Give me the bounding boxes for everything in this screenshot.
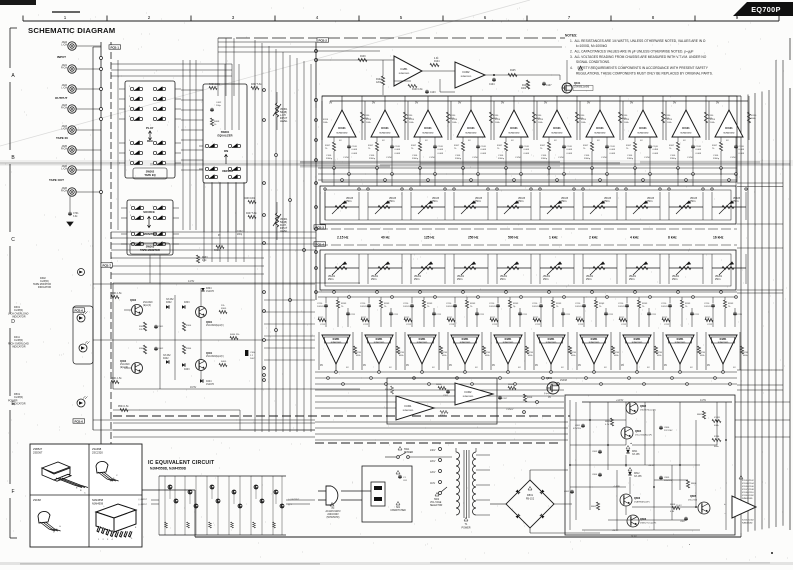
svg-text:R243: R243 bbox=[470, 303, 476, 305]
svg-text:40 Hz: 40 Hz bbox=[381, 236, 390, 240]
svg-text:IC101: IC101 bbox=[510, 126, 518, 130]
svg-text:250 k: 250 k bbox=[371, 279, 377, 281]
svg-text:R115: R115 bbox=[538, 119, 544, 121]
svg-text:6: 6 bbox=[129, 150, 130, 152]
svg-text:C106: C106 bbox=[713, 155, 719, 157]
svg-text:C1/50: C1/50 bbox=[472, 157, 479, 159]
svg-text:C106: C106 bbox=[369, 155, 375, 157]
svg-text:R236: R236 bbox=[356, 352, 362, 354]
svg-text:R217: R217 bbox=[490, 317, 496, 319]
svg-text:C211: C211 bbox=[350, 314, 356, 316]
svg-text:2SD867(C)or(F): 2SD867(C)or(F) bbox=[640, 409, 656, 412]
svg-text:R354: R354 bbox=[186, 348, 192, 350]
svg-text:VR105: VR105 bbox=[346, 198, 354, 200]
svg-text:2SK68(L)or(M): 2SK68(L)or(M) bbox=[574, 86, 589, 89]
svg-text:C211: C211 bbox=[694, 314, 700, 316]
svg-text:2SC2320: 2SC2320 bbox=[92, 451, 103, 455]
svg-text:D403: D403 bbox=[184, 369, 190, 371]
svg-text:3300p: 3300p bbox=[455, 158, 462, 160]
svg-text:C107: C107 bbox=[546, 85, 552, 87]
svg-text:1. ALL RESISTANCES ARE 1/4 WA: 1. ALL RESISTANCES ARE 1/4 WATTS, UNLESS… bbox=[570, 39, 706, 43]
svg-text:10/16V: 10/16V bbox=[704, 306, 711, 308]
svg-text:PCB-6: PCB-6 bbox=[75, 419, 84, 423]
svg-text:(+) INPUT: (+) INPUT bbox=[138, 504, 148, 506]
svg-text:15.4V: 15.4V bbox=[676, 505, 682, 507]
svg-text:250 k: 250 k bbox=[715, 279, 721, 281]
svg-text:VR105: VR105 bbox=[518, 198, 526, 200]
svg-text:0V: 0V bbox=[707, 364, 710, 367]
svg-text:0V: 0V bbox=[716, 101, 719, 105]
svg-text:C103: C103 bbox=[430, 92, 436, 94]
svg-text:LEVEL: LEVEL bbox=[280, 230, 288, 233]
svg-text:IC2B1: IC2B1 bbox=[548, 338, 555, 341]
svg-text:C211: C211 bbox=[737, 314, 743, 316]
svg-text:250 Hz: 250 Hz bbox=[468, 236, 479, 240]
svg-text:R303: R303 bbox=[139, 326, 145, 328]
svg-text:D404: D404 bbox=[206, 381, 212, 383]
svg-text:2SA996(E)or(F): 2SA996(E)or(F) bbox=[634, 501, 650, 504]
svg-text:(-) INPUT: (-) INPUT bbox=[138, 499, 147, 501]
svg-text:D304: D304 bbox=[206, 288, 212, 290]
svg-text:R115: R115 bbox=[495, 119, 501, 121]
svg-text:PCB-6: PCB-6 bbox=[75, 308, 84, 312]
svg-text:▲: ▲ bbox=[630, 442, 632, 445]
svg-text:C211: C211 bbox=[608, 314, 614, 316]
svg-text:(L)or(M): (L)or(M) bbox=[544, 392, 552, 395]
svg-text:XZ-062: XZ-062 bbox=[166, 299, 174, 301]
svg-text:SOURCE: SOURCE bbox=[143, 210, 155, 214]
svg-text:R243: R243 bbox=[599, 303, 605, 305]
svg-text:R105: R105 bbox=[510, 70, 516, 72]
svg-text:IC105 IC106: IC105 IC106 bbox=[742, 486, 755, 488]
svg-text:NJM4559D: NJM4559D bbox=[461, 76, 472, 78]
svg-text:1: 1 bbox=[130, 205, 131, 207]
svg-text:C1/50V: C1/50V bbox=[506, 409, 514, 411]
svg-text:0V: 0V bbox=[492, 364, 495, 367]
svg-text:R115: R115 bbox=[452, 119, 458, 121]
svg-text:10/16V: 10/16V bbox=[532, 306, 539, 308]
svg-text:0.068: 0.068 bbox=[438, 149, 444, 151]
svg-text:250 k: 250 k bbox=[647, 201, 653, 203]
svg-text:D812: D812 bbox=[634, 473, 640, 475]
svg-text:L-CH: L-CH bbox=[61, 168, 67, 171]
svg-text:DEFEAT: DEFEAT bbox=[222, 169, 234, 173]
svg-text:C1/50: C1/50 bbox=[601, 157, 608, 159]
svg-text:NJM4558D: NJM4558D bbox=[724, 133, 735, 135]
svg-text:0.068: 0.068 bbox=[481, 149, 487, 151]
svg-text:0V: 0V bbox=[544, 101, 547, 105]
svg-text:0.068: 0.068 bbox=[739, 153, 745, 155]
svg-text:0V: 0V bbox=[535, 364, 538, 367]
svg-text:IC2B1: IC2B1 bbox=[419, 338, 426, 341]
svg-text:INPUT: INPUT bbox=[57, 55, 66, 59]
svg-text:IC302: IC302 bbox=[463, 70, 470, 74]
svg-text:C1/50: C1/50 bbox=[343, 157, 350, 159]
svg-text:R236: R236 bbox=[528, 352, 534, 354]
svg-text:IC107 IC108: IC107 IC108 bbox=[742, 489, 755, 491]
svg-text:VR201: VR201 bbox=[629, 276, 637, 278]
svg-text:C806: C806 bbox=[664, 427, 670, 429]
svg-text:C804: C804 bbox=[592, 474, 598, 476]
svg-text:0.068: 0.068 bbox=[567, 153, 573, 155]
svg-text:10/16V: 10/16V bbox=[360, 306, 367, 308]
svg-text:R236: R236 bbox=[571, 352, 577, 354]
svg-text:7: 7 bbox=[130, 241, 131, 243]
svg-text:3: 3 bbox=[129, 106, 130, 108]
svg-text:NJM4558: NJM4558 bbox=[92, 498, 104, 502]
svg-text:IC101 IC102: IC101 IC102 bbox=[742, 480, 755, 482]
svg-text:4: 4 bbox=[129, 116, 130, 118]
svg-text:0V: 0V bbox=[406, 364, 409, 367]
svg-text:R464 22k: R464 22k bbox=[230, 334, 240, 336]
svg-text:INDICATOR: INDICATOR bbox=[38, 286, 51, 289]
svg-text:SELECTOR: SELECTOR bbox=[430, 505, 443, 507]
svg-text:0V: 0V bbox=[587, 101, 590, 105]
svg-text:R305: R305 bbox=[221, 308, 227, 310]
svg-text:SW303: SW303 bbox=[146, 245, 155, 249]
svg-text:0.068: 0.068 bbox=[567, 149, 573, 151]
svg-text:0.068: 0.068 bbox=[352, 149, 358, 151]
svg-text:SW301: SW301 bbox=[221, 130, 230, 134]
svg-text:NJM4558D: NJM4558D bbox=[417, 342, 428, 344]
svg-text:R802: R802 bbox=[591, 506, 597, 508]
svg-text:C802: C802 bbox=[564, 491, 570, 493]
svg-text:C807: C807 bbox=[680, 521, 686, 523]
svg-text:4 kHz: 4 kHz bbox=[630, 236, 639, 240]
svg-text:250 k: 250 k bbox=[604, 201, 610, 203]
svg-text:3300p: 3300p bbox=[369, 158, 376, 160]
svg-text:PCB-4: PCB-4 bbox=[316, 242, 325, 246]
svg-text:NJM4558D: NJM4558D bbox=[403, 410, 414, 412]
svg-text:VR105: VR105 bbox=[647, 198, 655, 200]
svg-text:250 k: 250 k bbox=[475, 201, 481, 203]
svg-text:(50Hz/60Hz): (50Hz/60Hz) bbox=[327, 517, 340, 519]
svg-text:C211: C211 bbox=[522, 314, 528, 316]
svg-text:0V: 0V bbox=[320, 364, 323, 367]
svg-text:IC101: IC101 bbox=[553, 126, 561, 130]
svg-text:14.5V: 14.5V bbox=[700, 400, 706, 402]
svg-text:R217: R217 bbox=[662, 317, 668, 319]
svg-text:F: F bbox=[11, 489, 14, 495]
svg-text:/50V: /50V bbox=[250, 358, 255, 360]
svg-text:VR105: VR105 bbox=[604, 198, 612, 200]
svg-text:2SC2320: 2SC2320 bbox=[143, 302, 153, 304]
svg-text:Q804: Q804 bbox=[635, 430, 642, 433]
svg-text:C212: C212 bbox=[707, 324, 713, 326]
svg-text:R107: R107 bbox=[626, 145, 632, 147]
svg-text:R107: R107 bbox=[325, 145, 331, 147]
svg-text:R107: R107 bbox=[583, 145, 589, 147]
svg-text:IC2B1: IC2B1 bbox=[677, 338, 684, 341]
svg-text:0.068: 0.068 bbox=[610, 149, 616, 151]
svg-text:PCB-7: PCB-7 bbox=[103, 263, 112, 267]
svg-text:10/16V: 10/16V bbox=[661, 306, 668, 308]
svg-text:D811: D811 bbox=[632, 451, 638, 453]
svg-text:0.068: 0.068 bbox=[481, 153, 487, 155]
svg-text:3300p: 3300p bbox=[713, 158, 720, 160]
svg-text:Q101: Q101 bbox=[574, 81, 581, 85]
svg-text:C1/50: C1/50 bbox=[730, 157, 737, 159]
svg-text:Q805: Q805 bbox=[690, 495, 697, 498]
svg-text:+14.5V: +14.5V bbox=[616, 400, 624, 402]
svg-text:NJM4558D: NJM4558D bbox=[546, 342, 557, 344]
svg-text:R243: R243 bbox=[341, 303, 347, 305]
svg-text:-24.5V: -24.5V bbox=[612, 530, 619, 532]
svg-text:C212: C212 bbox=[535, 324, 541, 326]
svg-text:500 Hz: 500 Hz bbox=[508, 236, 519, 240]
svg-text:XZ-185: XZ-185 bbox=[632, 454, 640, 456]
svg-text:POWER: POWER bbox=[461, 527, 470, 530]
svg-text:IC2B1: IC2B1 bbox=[400, 67, 408, 71]
svg-text:TAPE OUT: TAPE OUT bbox=[49, 178, 64, 182]
svg-text:R115: R115 bbox=[409, 119, 415, 121]
svg-text:IC302: IC302 bbox=[465, 390, 472, 394]
svg-text:D402: D402 bbox=[163, 358, 169, 360]
svg-text:R107: R107 bbox=[669, 145, 675, 147]
svg-text:250 k: 250 k bbox=[389, 201, 395, 203]
svg-text:0V: 0V bbox=[501, 101, 504, 105]
svg-text:IC026: IC026 bbox=[714, 417, 721, 419]
svg-text:7: 7 bbox=[129, 160, 130, 162]
svg-text:R-CH: R-CH bbox=[61, 148, 67, 151]
svg-text:C106: C106 bbox=[541, 155, 547, 157]
svg-text:3300p: 3300p bbox=[326, 158, 333, 160]
svg-text:●: ● bbox=[689, 544, 690, 546]
svg-text:C805: C805 bbox=[664, 477, 670, 479]
svg-text:C109: C109 bbox=[352, 146, 358, 148]
svg-text:NJM4558D: NJM4558D bbox=[552, 133, 563, 135]
svg-text:(-) V: (-) V bbox=[288, 504, 293, 506]
svg-text:G: G bbox=[59, 526, 61, 528]
svg-text:1S2076: 1S2076 bbox=[206, 384, 215, 386]
svg-text:250 k: 250 k bbox=[457, 279, 463, 281]
svg-text:C210: C210 bbox=[489, 303, 495, 305]
svg-text:R217: R217 bbox=[361, 317, 367, 319]
svg-text:VR105: VR105 bbox=[690, 198, 698, 200]
svg-text:L-CH: L-CH bbox=[61, 128, 67, 131]
svg-text:C106: C106 bbox=[326, 155, 332, 157]
svg-text:3300p: 3300p bbox=[498, 158, 505, 160]
svg-text:VR105: VR105 bbox=[389, 198, 397, 200]
svg-text:NJM4558D: NJM4558D bbox=[374, 342, 385, 344]
svg-text:L-CH: L-CH bbox=[61, 87, 67, 90]
svg-text:1: 1 bbox=[129, 86, 130, 88]
svg-text:2. ALL CAPACITANCES VALUES AR: 2. ALL CAPACITANCES VALUES ARE IN μF UNL… bbox=[570, 50, 694, 54]
svg-text:SCHEMATIC DIAGRAM: SCHEMATIC DIAGRAM bbox=[28, 26, 115, 35]
svg-text:IC2B1: IC2B1 bbox=[505, 338, 512, 341]
svg-text:Q301: Q301 bbox=[206, 321, 213, 324]
svg-text:R243: R243 bbox=[728, 303, 734, 305]
svg-text:VOL.TAGE: VOL.TAGE bbox=[430, 501, 442, 504]
svg-text:(E)or(F): (E)or(F) bbox=[120, 366, 128, 369]
svg-text:UNSWITCHED: UNSWITCHED bbox=[390, 510, 406, 512]
svg-text:C211: C211 bbox=[651, 314, 657, 316]
svg-text:R807: R807 bbox=[697, 414, 703, 416]
svg-text:Q806: Q806 bbox=[640, 518, 647, 521]
svg-text:10/16V: 10/16V bbox=[575, 306, 582, 308]
svg-text:OUTPUT: OUTPUT bbox=[55, 96, 68, 100]
svg-text:VR105: VR105 bbox=[733, 198, 741, 200]
svg-text:C212: C212 bbox=[578, 324, 584, 326]
svg-text:0.068: 0.068 bbox=[739, 149, 745, 151]
svg-text:IC EQUIVALENT CIRCUIT: IC EQUIVALENT CIRCUIT bbox=[148, 460, 215, 466]
svg-text:NJM4558D: NJM4558D bbox=[638, 133, 649, 135]
svg-text:250 k: 250 k bbox=[629, 279, 635, 281]
svg-text:REC: REC bbox=[147, 139, 154, 143]
svg-text:0V: 0V bbox=[363, 364, 366, 367]
svg-text:R217: R217 bbox=[404, 317, 410, 319]
svg-text:R304: R304 bbox=[186, 325, 192, 327]
svg-text:1S2076: 1S2076 bbox=[206, 291, 215, 293]
svg-text:250 k: 250 k bbox=[328, 279, 334, 281]
svg-text:IC101: IC101 bbox=[381, 126, 389, 130]
svg-text:5: 5 bbox=[129, 140, 130, 142]
svg-text:R115: R115 bbox=[581, 119, 587, 121]
svg-text:2SC2320(E)or(F): 2SC2320(E)or(F) bbox=[635, 434, 652, 437]
svg-text:NJM4558D: NJM4558D bbox=[742, 523, 753, 525]
svg-text:IC109 IC110: IC109 IC110 bbox=[742, 492, 754, 494]
svg-text:250 k: 250 k bbox=[518, 201, 524, 203]
svg-text:IC301: IC301 bbox=[405, 404, 412, 408]
svg-text:2SB527: 2SB527 bbox=[33, 447, 43, 451]
svg-text:R504 1.5k: R504 1.5k bbox=[118, 406, 129, 408]
svg-text:Q401: Q401 bbox=[206, 352, 213, 355]
svg-text:0.068: 0.068 bbox=[395, 153, 401, 155]
svg-text:VR201: VR201 bbox=[672, 276, 680, 278]
svg-text:IC2B1: IC2B1 bbox=[462, 338, 469, 341]
svg-text:0V: 0V bbox=[449, 364, 452, 367]
svg-text:PCB-2: PCB-2 bbox=[319, 38, 328, 42]
svg-text:EQ700P: EQ700P bbox=[751, 5, 781, 14]
svg-text:C210: C210 bbox=[360, 303, 366, 305]
svg-text:R107: R107 bbox=[497, 145, 503, 147]
svg-text:NJM4558D: NJM4558D bbox=[399, 73, 410, 75]
svg-text:IC2B1: IC2B1 bbox=[333, 338, 340, 341]
svg-text:0V: 0V bbox=[664, 364, 667, 367]
svg-text:C106: C106 bbox=[498, 155, 504, 157]
svg-text:0.068: 0.068 bbox=[610, 153, 616, 155]
svg-text:C210: C210 bbox=[446, 303, 452, 305]
svg-text:R130: R130 bbox=[751, 115, 757, 117]
svg-text:VR201: VR201 bbox=[543, 276, 551, 278]
svg-text:D303: D303 bbox=[184, 302, 190, 304]
svg-text:C210: C210 bbox=[532, 303, 538, 305]
svg-text:2SC2320: 2SC2320 bbox=[688, 500, 698, 502]
svg-text:R406 100k: R406 100k bbox=[209, 84, 221, 86]
svg-text:NJM4558D, NJM4559D: NJM4558D, NJM4559D bbox=[150, 467, 187, 471]
svg-text:3: 3 bbox=[130, 215, 131, 217]
svg-text:C109: C109 bbox=[739, 146, 745, 148]
svg-text:C212: C212 bbox=[621, 324, 627, 326]
svg-text:2SK68: 2SK68 bbox=[33, 498, 41, 502]
svg-text:VR201: VR201 bbox=[371, 276, 379, 278]
svg-text:C109: C109 bbox=[696, 146, 702, 148]
svg-text:2SK68: 2SK68 bbox=[560, 380, 568, 382]
svg-text:TAPE EQ: TAPE EQ bbox=[144, 173, 155, 177]
svg-text:16 kHz: 16 kHz bbox=[713, 236, 724, 240]
svg-text:C106: C106 bbox=[627, 155, 633, 157]
svg-text:C211: C211 bbox=[565, 314, 571, 316]
svg-text:110V: 110V bbox=[430, 483, 436, 485]
svg-text:R104: R104 bbox=[434, 61, 440, 63]
svg-text:C109: C109 bbox=[610, 146, 616, 148]
svg-text:0V: 0V bbox=[372, 101, 375, 105]
svg-text:R217: R217 bbox=[318, 317, 324, 319]
svg-text:C803: C803 bbox=[592, 451, 598, 453]
svg-text:2SC2320(E)or(F): 2SC2320(E)or(F) bbox=[206, 355, 224, 358]
svg-text:SIGNAL CONDITIONS.: SIGNAL CONDITIONS. bbox=[576, 60, 610, 64]
svg-text:R217: R217 bbox=[533, 317, 539, 319]
svg-text:0.068: 0.068 bbox=[696, 153, 702, 155]
svg-text:C202: C202 bbox=[443, 395, 449, 397]
svg-text:XZ-062: XZ-062 bbox=[163, 355, 171, 357]
svg-text:R409 100k: R409 100k bbox=[244, 198, 256, 200]
svg-text:R203: R203 bbox=[385, 389, 391, 391]
svg-text:FB-152: FB-152 bbox=[526, 498, 535, 501]
svg-text:NJM4558D: NJM4558D bbox=[503, 342, 514, 344]
svg-text:C210: C210 bbox=[661, 303, 667, 305]
svg-text:(E)or(F): (E)or(F) bbox=[143, 304, 151, 307]
svg-text:10/16V: 10/16V bbox=[489, 306, 496, 308]
svg-text:220V: 220V bbox=[430, 461, 436, 463]
svg-text:200p: 200p bbox=[216, 105, 222, 107]
svg-text:NJM4558D: NJM4558D bbox=[466, 133, 477, 135]
svg-text:PLAY: PLAY bbox=[146, 126, 154, 130]
svg-text:VR201: VR201 bbox=[414, 276, 422, 278]
svg-text:C210: C210 bbox=[575, 303, 581, 305]
svg-text:C106: C106 bbox=[455, 155, 461, 157]
svg-text:C109: C109 bbox=[653, 146, 659, 148]
svg-text:C109: C109 bbox=[567, 146, 573, 148]
svg-text:R243: R243 bbox=[513, 303, 519, 305]
svg-text:AC110V/120V/: AC110V/120V/ bbox=[325, 510, 340, 513]
svg-text:R243: R243 bbox=[642, 303, 648, 305]
svg-text:0V: 0V bbox=[578, 364, 581, 367]
svg-text:10/16V: 10/16V bbox=[618, 306, 625, 308]
svg-text:250 k: 250 k bbox=[561, 201, 567, 203]
svg-text:R236: R236 bbox=[743, 352, 749, 354]
svg-text:R106: R106 bbox=[522, 85, 528, 87]
svg-text:R236: R236 bbox=[442, 352, 448, 354]
svg-text:IC2B1: IC2B1 bbox=[720, 338, 727, 341]
svg-text:R-CH: R-CH bbox=[61, 190, 67, 193]
svg-text:IC2B1: IC2B1 bbox=[634, 338, 641, 341]
svg-text:C1/50: C1/50 bbox=[644, 157, 651, 159]
svg-text:0.068: 0.068 bbox=[352, 153, 358, 155]
svg-text:C211: C211 bbox=[436, 314, 442, 316]
svg-text:D302: D302 bbox=[166, 302, 172, 304]
svg-text:1 kHz: 1 kHz bbox=[549, 236, 558, 240]
svg-text:10/16V: 10/16V bbox=[446, 306, 453, 308]
svg-text:C1/50: C1/50 bbox=[687, 157, 694, 159]
svg-text:C212: C212 bbox=[406, 324, 412, 326]
svg-text:C106: C106 bbox=[584, 155, 590, 157]
svg-text:NJM4558D: NJM4558D bbox=[380, 133, 391, 135]
svg-text:R406: R406 bbox=[214, 250, 220, 252]
svg-text:250 k: 250 k bbox=[414, 279, 420, 281]
svg-text:IC101: IC101 bbox=[338, 126, 346, 130]
svg-text:C212: C212 bbox=[449, 324, 455, 326]
svg-text:C106: C106 bbox=[670, 155, 676, 157]
svg-text:R115: R115 bbox=[710, 119, 716, 121]
svg-text:R217: R217 bbox=[705, 317, 711, 319]
svg-text:C210: C210 bbox=[704, 303, 710, 305]
svg-text:C109: C109 bbox=[438, 146, 444, 148]
svg-text:R109: R109 bbox=[360, 56, 366, 58]
svg-text:2SC2320(E)or(F): 2SC2320(E)or(F) bbox=[206, 324, 224, 327]
svg-text:R243: R243 bbox=[685, 303, 691, 305]
svg-text:IC101: IC101 bbox=[467, 126, 475, 130]
